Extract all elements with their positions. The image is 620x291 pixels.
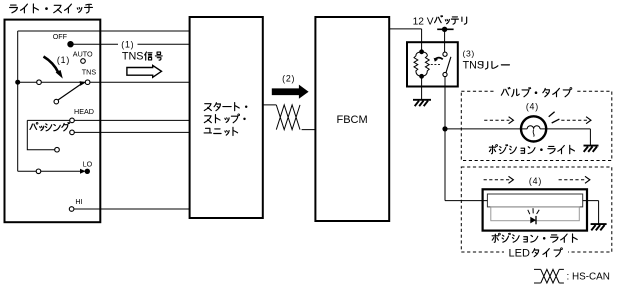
svg-text:OFF: OFF [53, 32, 68, 41]
svg-text:(1): (1) [121, 39, 134, 49]
svg-text:(3): (3) [463, 49, 475, 59]
svg-text:AUTO: AUTO [73, 49, 93, 58]
svg-text:(1): (1) [57, 55, 70, 65]
svg-text:: HS-CAN: : HS-CAN [567, 271, 610, 282]
svg-text:HI: HI [75, 197, 82, 206]
svg-text:TNS: TNS [122, 51, 144, 63]
svg-text:TNS: TNS [82, 68, 97, 77]
svg-text:(4): (4) [526, 102, 539, 112]
svg-text:LO: LO [83, 159, 93, 168]
svg-text:FBCM: FBCM [337, 114, 368, 126]
svg-text:(4): (4) [529, 176, 542, 186]
svg-text:TNS: TNS [463, 60, 484, 72]
svg-text:(2): (2) [282, 73, 295, 83]
svg-text:LED: LED [509, 247, 530, 259]
svg-text:12 V: 12 V [413, 16, 434, 27]
svg-text:HEAD: HEAD [74, 107, 94, 116]
